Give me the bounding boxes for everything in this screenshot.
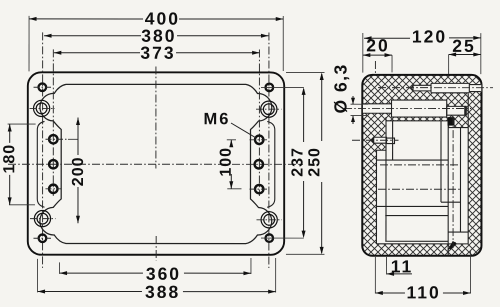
outer enclosure outline [28,72,284,254]
svg-text:388: 388 [145,282,180,302]
M6 boss hole top-left [34,100,50,116]
seal black blob [448,117,455,126]
M6 boss hole bottom-right [261,212,277,228]
dim dia 6,3 [351,104,369,115]
ext line 237 bottom (through hole) [261,237,304,239]
dim 237 [303,89,305,237]
dim 360 [60,258,251,274]
M6 boss hole bottom-left [34,211,50,227]
dim 180 [8,124,36,205]
corner screw hole bottom-right [265,234,273,242]
dim 11 [386,257,388,274]
svg-text:360: 360 [146,264,181,284]
svg-text:200: 200 [70,156,87,186]
hole column axis right (373) [258,50,260,197]
boss hole row 140 [371,137,374,143]
dim 25 [448,54,450,74]
horizontal center axis [8,163,303,165]
svg-text:100: 100 [218,147,235,177]
cavity structure [385,117,387,241]
stub axis above section [374,61,376,74]
dim 388 [38,258,276,293]
hole column axis right (380) [268,33,270,268]
vertical center axis upper [155,66,157,168]
svg-text:25: 25 [452,36,475,56]
dim 120 [362,33,364,73]
dim 373 [54,52,260,54]
svg-text:120: 120 [412,26,447,46]
svg-text:237: 237 [289,147,306,177]
dim 20 [391,55,393,72]
internal outlines [363,83,481,255]
M6 hole row 108.4 [363,104,392,113]
pcb boss holes right column [255,136,264,194]
dim 250 [286,73,325,255]
cavity outline with corner boss cutouts [40,84,272,243]
corner screw hole bottom-left [39,234,47,242]
svg-text:M6: M6 [204,110,231,128]
corner arrow [447,241,456,251]
ext line 237 top (through hole) [261,86,304,88]
hole column axis left (380) [42,32,44,267]
vertical center axis lower [155,236,157,261]
dim 200 [68,138,78,140]
M6 boss hole top-right [261,101,277,117]
svg-text:373: 373 [140,43,175,63]
svg-text:11: 11 [391,256,414,276]
dim 380 [44,35,268,37]
screw hole row 87.6 [411,85,413,91]
corner screw hole top-right [266,84,274,92]
M6 hole row 108.4 outlines [363,104,392,113]
section centerlines [344,88,493,248]
svg-text:250: 250 [306,147,323,177]
svg-text:Ø 6,3: Ø 6,3 [331,63,351,113]
dim 110 [375,251,470,293]
lid seam line right [267,122,275,208]
dim 100 [227,140,242,189]
boss hole row 140 [374,137,387,143]
pcb boss holes left column [49,135,57,193]
lid seam line left [37,121,44,207]
corner screw hole top-left [39,83,47,91]
svg-text:110: 110 [407,282,441,302]
hatched body [362,75,481,256]
white cavity [363,83,481,244]
dim 400 [28,16,30,71]
screw hole row 87.6 outlines [411,85,431,91]
svg-text:20: 20 [366,35,389,55]
hole column axis left (373) [52,49,54,195]
svg-text:180: 180 [1,144,18,174]
